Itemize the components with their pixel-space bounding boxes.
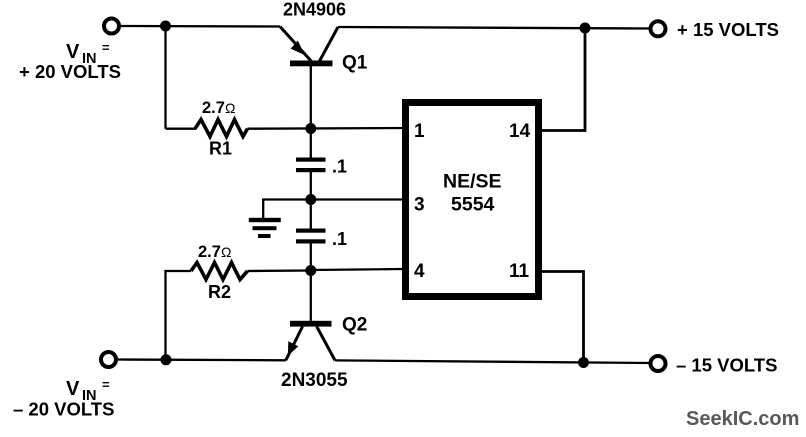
node top-left junction [160,21,171,32]
wire ground branch [263,200,311,219]
svg-text:4: 4 [414,261,425,282]
terminal -15V output [651,356,666,371]
svg-text:SeekIC.com: SeekIC.com [686,408,799,430]
wire Q1 base down to node [310,66,312,129]
wire bottom-left rail [117,358,286,361]
svg-text:1: 1 [414,121,425,142]
label +20 VOLTS [19,61,121,82]
svg-text:11: 11 [509,261,530,282]
svg-text:=: = [102,40,110,55]
wire bottom-right rail [335,360,651,363]
svg-text:2N3055: 2N3055 [281,370,348,391]
wire R2 left branch [166,271,192,360]
wire node to pin 4 [311,269,404,270]
wire R1 to pin 1 [248,127,405,130]
wire R2 right lead [248,269,311,272]
svg-text:+ 20 VOLTS: + 20 VOLTS [19,61,121,82]
wire C2 top lead [310,200,312,230]
wire C1 bottom lead [310,172,312,200]
label .1 (C1) [332,157,347,177]
label -15 VOLTS [676,355,777,376]
wire node to pin 3 [311,198,404,200]
node ground/pin3 junction [305,194,316,205]
node +15V junction [580,23,591,34]
capacitor C1 .1 [296,158,326,173]
svg-text:.1: .1 [332,229,347,249]
terminal +20V input [104,19,119,34]
svg-text:2.7Ω: 2.7Ω [202,99,235,117]
svg-text:V: V [66,41,80,63]
wire R1 left lead [166,128,197,130]
wire from +15V node down to pin 14 [542,28,585,131]
terminal +15V output [651,21,666,36]
svg-text:14: 14 [509,121,531,142]
svg-text:Q1: Q1 [342,53,368,74]
svg-text:3: 3 [414,195,425,216]
node R1/C1/base junction [305,123,316,134]
transistor Q2 [286,321,335,361]
svg-text:– 20 VOLTS: – 20 VOLTS [13,399,114,420]
label 2N4906 [283,0,346,20]
transistor Q1 [280,27,338,67]
label Q1 [342,53,368,74]
resistor R2 [191,263,248,280]
label +15 VOLTS [677,19,779,40]
label V_IN = (top) [66,40,110,67]
svg-text:NE/SE: NE/SE [443,171,502,193]
svg-text:R1: R1 [209,139,232,159]
label 2.7 ohms (R1) [202,99,235,117]
node -15V junction [578,357,589,368]
svg-text:.1: .1 [332,157,347,177]
label 2N3055 [281,370,348,391]
svg-text:2N4906: 2N4906 [283,0,346,20]
wire C1 top lead [310,129,312,159]
wire pin 11 to -15V node [542,272,584,363]
label R1 [209,139,232,159]
wire left branch down to R1 [164,26,166,129]
label SeekIC.com watermark [686,408,799,430]
svg-text:2.7Ω: 2.7Ω [198,243,231,261]
wire top-right rail [338,27,651,29]
capacitor C2 .1 [296,229,326,244]
wire C2 bottom lead [310,244,312,271]
node R2/C2/pin4 junction [305,265,316,276]
svg-text:+ 15 VOLTS: + 15 VOLTS [677,19,779,40]
label .1 (C2) [332,229,347,249]
label V_IN = (bottom) [66,377,110,404]
svg-text:Q2: Q2 [342,315,367,336]
wire top-left rail [120,25,281,28]
svg-text:V: V [66,378,80,400]
wire Q2 base up to node [310,271,312,321]
ground [249,218,281,238]
label Q2 [342,315,367,336]
svg-text:=: = [102,377,110,392]
svg-text:5554: 5554 [451,194,495,216]
label R2 [208,282,231,302]
IC U1 NE/SE 5554 [406,103,539,297]
label 2.7 ohms (R2) [198,243,231,261]
resistor R1 [195,120,248,137]
svg-text:R2: R2 [208,282,231,302]
svg-text:– 15 VOLTS: – 15 VOLTS [676,355,777,376]
terminal -20V input [101,352,116,367]
label -20 VOLTS [13,399,114,420]
node bottom-left junction [161,354,172,365]
